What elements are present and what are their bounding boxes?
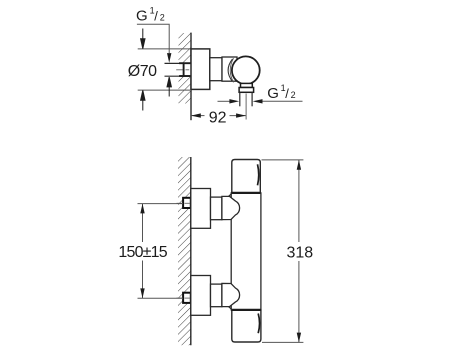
bottom inlet centre dash: [177, 297, 191, 299]
wall face line (top view): [190, 33, 192, 121]
svg-text:/: /: [154, 9, 158, 24]
bottom inlet escutcheon: [191, 276, 211, 316]
inlet pipe (top view): [165, 63, 192, 76]
main body column: [231, 193, 261, 310]
svg-text:G: G: [136, 8, 148, 25]
outlet pipe (top view): [239, 92, 241, 106]
outlet centre line: [245, 94, 247, 120]
svg-text:G: G: [267, 85, 279, 102]
svg-text:2: 2: [160, 13, 165, 23]
top inlet centre dash: [177, 202, 191, 204]
escutcheon flange (top view): [191, 49, 210, 90]
top inlet: stub in wall: [183, 198, 191, 208]
valve body ring (top view): [222, 57, 237, 81]
top inlet cone: [222, 196, 240, 219]
dimension 150±15 top extension line: [138, 203, 184, 205]
valve body cylinder (top view): [210, 58, 222, 81]
svg-text:150±15: 150±15: [118, 244, 167, 261]
bottom inlet cylinder: [211, 284, 222, 307]
wall hatching (top view): [179, 33, 192, 104]
dimension 318 line: [297, 160, 301, 343]
top joint line: [231, 192, 260, 194]
svg-text:2: 2: [291, 90, 296, 100]
dimension Ø70 bottom arrow: [141, 90, 145, 110]
top inlet cone chamfer: [229, 193, 233, 197]
top cap: [232, 160, 260, 193]
label G1/2 (top) underline leader: [137, 24, 169, 53]
wall face line (bottom view): [190, 157, 192, 345]
dimension Ø70 top arrow: [141, 29, 145, 49]
bottom joint line: [231, 309, 261, 311]
dome arc behind knob: [228, 59, 232, 82]
union fitting in wall (top view): [179, 63, 191, 77]
dimension 150±15 line: [140, 204, 144, 299]
top inlet escutcheon: [191, 189, 211, 229]
svg-text:Ø70: Ø70: [128, 63, 157, 80]
top inlet cylinder: [211, 197, 222, 220]
dimension 150±15 bottom extension line: [138, 297, 184, 299]
outlet nut band 1: [241, 83, 253, 87]
G1/2 (right) opposing arrow: [218, 99, 240, 103]
dimension Ø70 bottom extension line: [138, 89, 190, 91]
bottom cap: [232, 310, 261, 342]
top cap shading arc: [258, 164, 259, 185]
dimension Ø70 top extension line: [138, 48, 191, 50]
dimension 92 line: [191, 113, 246, 117]
G1/2 (top) lower arrow: [167, 77, 171, 96]
G1/2 (right) leader arrow: [253, 99, 303, 103]
bottom inlet cone: [222, 283, 240, 306]
bottom inlet cone chamfer: [229, 307, 233, 310]
svg-text:92: 92: [209, 110, 227, 127]
svg-text:318: 318: [287, 245, 314, 262]
outlet nut band 2: [239, 88, 254, 93]
dimension 318 bottom extension line: [262, 341, 303, 343]
bottom inlet: stub in wall: [183, 293, 191, 303]
G1/2 (top) upper arrow: [167, 53, 171, 63]
knob circle (top view): [232, 56, 260, 84]
wall hatching (bottom view): [178, 157, 191, 345]
inlet pipe centre dash line: [176, 69, 189, 71]
dimension 318 top extension line: [262, 159, 304, 161]
svg-text:/: /: [285, 86, 289, 101]
bottom cap shading arc: [258, 314, 259, 334]
